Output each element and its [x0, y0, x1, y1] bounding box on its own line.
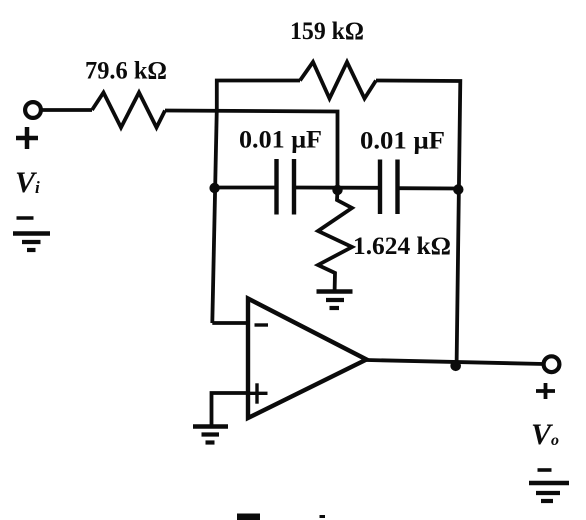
caption fragment (cut off at bottom): [237, 514, 260, 520]
svg-text:1.624 kΩ: 1.624 kΩ: [353, 233, 451, 260]
svg-text:0.01 μF: 0.01 μF: [239, 127, 322, 154]
node junction dot right top: [453, 184, 463, 194]
node A junction dot: [332, 185, 342, 195]
wire C2 to output node: [398, 186, 460, 190]
op-amp minus symbol: [255, 323, 269, 326]
plus sign at Vo terminal: [536, 389, 555, 393]
plus sign at Vi terminal: [16, 136, 38, 141]
wire inverting input: [212, 321, 248, 325]
op-amp U1 triangle: [248, 299, 367, 419]
svg-text:79.6 kΩ: 79.6 kΩ: [85, 58, 167, 85]
wire C1 to node A to C2: [294, 186, 380, 190]
wire input terminal to R1: [41, 108, 93, 112]
wire R1 to node A corner: [165, 111, 338, 190]
node B junction dot: [209, 183, 219, 193]
minus sign at Vo: [538, 468, 552, 472]
op-amp plus symbol: [249, 392, 268, 395]
resistor R3 1.624 kOhm (vertical): [318, 190, 352, 291]
wire top feedback left segment: [217, 81, 300, 113]
capacitor C1 0.01 uF plates: [274, 159, 278, 215]
minus sign at Vi: [17, 216, 34, 220]
terminal Vo: [544, 356, 560, 372]
wire top feedback right segment and right vertical: [376, 81, 460, 365]
terminal Vi: [25, 102, 41, 118]
wire node B to C1: [215, 186, 277, 190]
ground for op-amp non-inverting input: [193, 424, 228, 428]
ground at Vi: [13, 231, 50, 235]
wire op-amp output to terminal: [367, 360, 545, 364]
capacitor C2 0.01 uF plates: [378, 160, 382, 215]
wire non-inverting input: [212, 393, 249, 427]
ground for R3: [317, 289, 353, 293]
wire left vertical (inverting node): [212, 109, 217, 323]
resistor R1 79.6 kOhm: [92, 93, 165, 128]
node junction dot output: [450, 361, 461, 372]
ground at Vo: [529, 481, 569, 485]
resistor R2 159 kOhm: [300, 62, 376, 99]
svg-text:159 kΩ: 159 kΩ: [290, 18, 364, 45]
svg-text:0.01 μF: 0.01 μF: [360, 128, 445, 155]
